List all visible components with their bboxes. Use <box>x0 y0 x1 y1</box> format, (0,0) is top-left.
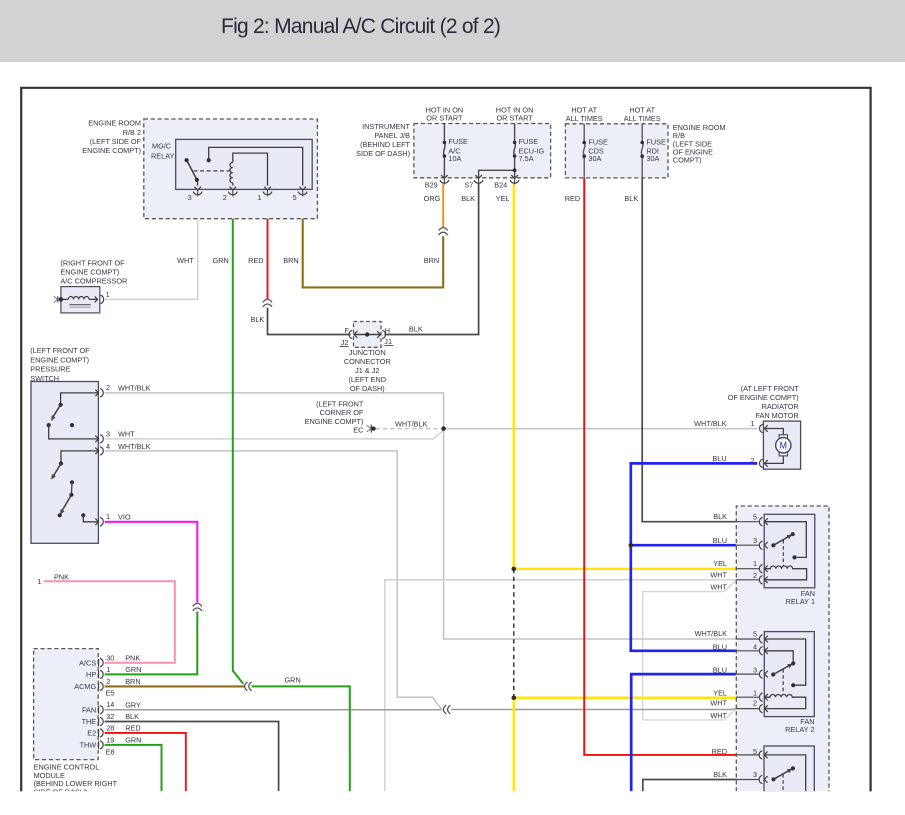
relay MG/C internal coil rail pin1 <box>233 153 268 186</box>
svg-text:B29: B29 <box>425 180 438 189</box>
svg-text:GRN: GRN <box>125 736 141 745</box>
svg-text:RED: RED <box>565 194 580 203</box>
motor pin connectors 1 2 <box>764 425 767 432</box>
svg-text:WHT/BLK: WHT/BLK <box>118 383 151 392</box>
svg-text:FUSE: FUSE <box>448 137 468 146</box>
svg-text:PNK: PNK <box>54 572 69 581</box>
svg-text:1: 1 <box>106 512 110 521</box>
wire BLK fan relay 3 pin3 drop <box>643 780 736 792</box>
fuse ECU-IG 7.5A <box>514 124 516 178</box>
relay MG/C inner box <box>176 139 313 189</box>
junction connector J1 J2 dashed box <box>354 322 382 348</box>
svg-text:BLK: BLK <box>713 512 727 521</box>
connector break GRN-BRN <box>245 682 248 691</box>
wire BLK splice to junction connector J2 <box>268 308 351 335</box>
relay 1 internal contact rail <box>764 522 806 558</box>
svg-text:PRESSURE: PRESSURE <box>30 365 70 374</box>
svg-text:1: 1 <box>106 665 110 674</box>
compressor coil and core <box>61 298 68 300</box>
svg-text:WHT: WHT <box>177 256 194 265</box>
wire GRY connector break to fan relay 2 pin2 <box>451 708 736 711</box>
svg-text:30A: 30A <box>646 154 659 163</box>
svg-text:HP: HP <box>86 670 96 679</box>
svg-text:BLK: BLK <box>125 712 139 721</box>
svg-text:30: 30 <box>106 653 114 662</box>
svg-text:2: 2 <box>223 193 227 202</box>
svg-text:OF DASH): OF DASH) <box>350 384 385 393</box>
svg-text:RED: RED <box>248 256 263 265</box>
wire YEL to fan relay 1 pin1 <box>514 568 736 571</box>
fuse CDS 30A <box>583 124 585 178</box>
svg-text:10A: 10A <box>448 154 461 163</box>
svg-text:RELAY 1: RELAY 1 <box>786 597 815 606</box>
svg-text:J1 & J2: J1 & J2 <box>355 366 379 375</box>
pressure switch pin arrows and connectors 2 3 4 1 <box>95 390 98 397</box>
splice ORG to BRN <box>439 228 448 231</box>
svg-text:BRN: BRN <box>424 256 439 265</box>
svg-text:PNK: PNK <box>125 653 140 662</box>
wire WHT/BLK EC node to radiator fan motor pin1 <box>444 428 758 430</box>
svg-text:WHT: WHT <box>710 583 727 592</box>
svg-text:BLK: BLK <box>624 194 638 203</box>
relay 2 internal contact rail pin5 <box>764 639 805 685</box>
fuse A/C 10A <box>444 124 446 178</box>
svg-text:GRY: GRY <box>125 700 141 709</box>
wire BLK fuse RDI to fan relay 1 pin5 <box>642 178 736 522</box>
svg-text:(BEHIND LEFT: (BEHIND LEFT <box>360 140 410 149</box>
svg-text:GRN: GRN <box>125 665 141 674</box>
header bar <box>0 0 905 62</box>
motor brushes <box>779 435 787 438</box>
svg-text:2: 2 <box>106 383 110 392</box>
svg-text:5: 5 <box>753 747 757 756</box>
svg-text:RELAY: RELAY <box>151 152 175 161</box>
relay FAN RELAY 1 inner box <box>764 514 815 588</box>
svg-text:4: 4 <box>106 442 110 451</box>
relay 2 coil <box>764 695 805 709</box>
fuse box ENGINE ROOM R/B dashed box <box>565 124 668 178</box>
wire BLK junction connector J1 to fuse S7 <box>384 183 478 334</box>
relay 3 pin stubs and connectors 5 3 <box>736 754 760 756</box>
wire YEL fuse B24 down with dashed section and drop <box>513 184 516 569</box>
wire BLU fan relay 2 pin3 drop <box>631 674 736 791</box>
svg-text:RED: RED <box>125 724 140 733</box>
ECM dashed box ENGINE CONTROL MODULE <box>34 649 99 760</box>
svg-text:INSTRUMENT: INSTRUMENT <box>362 122 410 131</box>
svg-text:FUSE: FUSE <box>588 138 608 147</box>
EC body ground symbol <box>370 425 372 433</box>
svg-text:THW: THW <box>80 741 97 750</box>
pressure switch internal switch 3 <box>70 480 74 484</box>
pressure switch internal switch 2 <box>61 451 98 464</box>
svg-text:OF ENGINE COMPT): OF ENGINE COMPT) <box>728 393 799 402</box>
relay 3 internal rail <box>764 755 806 791</box>
svg-text:(AT LEFT FRONT: (AT LEFT FRONT <box>741 384 800 393</box>
compressor ground-side symbol <box>57 296 59 302</box>
wire GRY ECM FAN to connector break <box>105 709 442 711</box>
svg-text:BLK: BLK <box>713 770 727 779</box>
svg-text:EC: EC <box>353 426 363 435</box>
svg-text:GRN: GRN <box>213 256 229 265</box>
wire RED fuse CDS to fan relay 3 pin5 <box>584 178 736 755</box>
svg-text:S7: S7 <box>464 180 473 189</box>
svg-text:YEL: YEL <box>713 688 727 697</box>
fuse box pin arrows and connectors B29 S7 B24 <box>443 178 445 185</box>
svg-text:H: H <box>385 326 390 335</box>
node YEL junction dots <box>512 567 517 572</box>
svg-text:COMPT): COMPT) <box>673 156 702 165</box>
svg-text:BRN: BRN <box>283 256 298 265</box>
svg-text:CORNER OF: CORNER OF <box>320 408 364 417</box>
svg-text:OR START: OR START <box>496 114 533 123</box>
svg-text:J2: J2 <box>341 338 349 347</box>
svg-text:ACMG: ACMG <box>74 682 96 691</box>
svg-text:BLU: BLU <box>713 536 727 545</box>
svg-text:ENGINE COMPT): ENGINE COMPT) <box>60 268 119 277</box>
wire WHT/BLK pressure switch pin2 to EC node <box>105 393 444 426</box>
svg-text:FAN MOTOR: FAN MOTOR <box>755 411 798 420</box>
splice RED to BLK <box>263 299 272 302</box>
svg-text:VIO: VIO <box>118 512 131 521</box>
svg-text:SIDE OF DASH): SIDE OF DASH) <box>356 149 410 158</box>
svg-text:SIDE OF DASH): SIDE OF DASH) <box>34 788 88 797</box>
svg-text:WHT/BLK: WHT/BLK <box>118 442 151 451</box>
junction connector internal wire and node <box>354 334 382 336</box>
wire BRN ECM ACMG to break <box>105 685 244 687</box>
svg-text:28: 28 <box>106 723 114 732</box>
relay 2 pin4 rail to NO contact <box>764 651 793 661</box>
svg-text:4: 4 <box>753 643 757 652</box>
svg-text:1: 1 <box>753 689 757 698</box>
radiator fan motor box <box>763 421 800 469</box>
svg-text:BLK: BLK <box>461 194 475 203</box>
svg-text:1: 1 <box>750 419 754 428</box>
relay MG/C dashed actuation link <box>194 170 230 172</box>
svg-text:WHT: WHT <box>710 711 727 720</box>
wire RED MG/C relay pin1 to splice <box>267 196 269 299</box>
wire WHT pressure switch pin3 to EC node <box>105 430 444 439</box>
relay 1 coil <box>764 566 806 580</box>
svg-text:2: 2 <box>753 571 757 580</box>
compressor pin1 connector <box>101 295 104 303</box>
motor M circle <box>776 438 791 453</box>
node EC dot <box>371 426 375 430</box>
wire GRN MG/C relay pin2 to break to ECM area drop <box>233 197 243 684</box>
svg-text:RADIATOR: RADIATOR <box>762 402 799 411</box>
svg-text:BLU: BLU <box>712 454 726 463</box>
svg-text:1: 1 <box>257 193 261 202</box>
svg-text:BLU: BLU <box>713 642 727 651</box>
svg-text:E8: E8 <box>106 748 115 757</box>
node WHT/BLK junction dot <box>441 426 446 431</box>
svg-text:1: 1 <box>106 290 110 299</box>
svg-text:THE: THE <box>82 717 97 726</box>
svg-text:WHT: WHT <box>710 699 727 708</box>
svg-text:R/B 2: R/B 2 <box>123 128 141 137</box>
svg-text:3: 3 <box>188 193 192 202</box>
wire WHT MG/C relay pin3 to A/C compressor <box>105 196 198 299</box>
wire BLK ECM THE drop <box>105 722 279 792</box>
svg-text:E2: E2 <box>87 729 96 738</box>
svg-text:(LEFT SIDE OF: (LEFT SIDE OF <box>90 137 142 146</box>
relay 1 switch lever <box>771 543 775 547</box>
svg-text:19: 19 <box>106 735 114 744</box>
wire WHT fan relay 1 pin2 horizontal and drop <box>385 580 736 792</box>
wire WHT/BLK EC dashed segment <box>376 428 441 430</box>
svg-text:(RIGHT FRONT OF: (RIGHT FRONT OF <box>60 259 125 268</box>
svg-text:BLK: BLK <box>251 315 265 324</box>
svg-text:A/CS: A/CS <box>79 658 96 667</box>
svg-text:(LEFT END: (LEFT END <box>349 375 387 384</box>
svg-text:2: 2 <box>106 677 110 686</box>
fan relays dashed box <box>736 506 829 791</box>
relay 2 switch lever <box>771 672 775 676</box>
svg-text:3: 3 <box>106 429 110 438</box>
relay 2 dashed actuation <box>782 669 784 694</box>
wire BLU branch to fan relay 1 pin3 <box>631 544 736 547</box>
ECM pin connectors <box>98 659 100 667</box>
relay 1 pin stubs and connectors 5 3 1 2 <box>736 521 760 523</box>
wire BRN MG/C relay pin5 to splice under ORG <box>303 196 444 287</box>
svg-text:FAN: FAN <box>82 706 96 715</box>
connector break GRY <box>443 705 446 714</box>
svg-text:(LEFT FRONT OF: (LEFT FRONT OF <box>30 346 90 355</box>
svg-text:1: 1 <box>37 577 41 586</box>
svg-text:3: 3 <box>753 666 757 675</box>
svg-text:5: 5 <box>753 512 757 521</box>
pressure switch internal switch 1 <box>61 393 99 405</box>
svg-text:FUSE: FUSE <box>519 137 539 146</box>
relay 3 switch lever <box>771 777 775 781</box>
relay FAN RELAY 3 inner box partial <box>764 746 814 792</box>
svg-text:BLU: BLU <box>713 665 727 674</box>
svg-text:JUNCTION: JUNCTION <box>349 348 386 357</box>
svg-text:30A: 30A <box>588 154 601 163</box>
wire WHT/BLK EC node down to fan relay 2 pin5 <box>444 429 736 639</box>
relay FAN RELAY 2 inner box <box>764 632 814 717</box>
svg-text:Fig 2: Manual A/C Circuit (2 o: Fig 2: Manual A/C Circuit (2 of 2) <box>221 15 500 38</box>
svg-text:BRN: BRN <box>125 677 140 686</box>
svg-text:ENGINE ROOM: ENGINE ROOM <box>88 119 141 128</box>
wire YEL to fan relay 2 pin1 <box>514 696 736 699</box>
pressure switch box <box>31 382 98 544</box>
fuse box INSTRUMENT PANEL J/B dashed box <box>414 124 551 178</box>
wire PNK stub to ECM A/CS <box>44 581 175 663</box>
svg-text:GRN: GRN <box>285 676 301 685</box>
svg-text:7.5A: 7.5A <box>519 154 534 163</box>
splice VIO to GRN <box>193 603 202 606</box>
svg-text:F: F <box>345 326 350 335</box>
relay MG/C pin arrows and connectors <box>197 189 199 196</box>
fuse RDI 30A <box>641 124 643 178</box>
wire WHT angled link relay1 pin2 to relay2 pin2 <box>643 580 736 720</box>
svg-text:ENGINE COMPT): ENGINE COMPT) <box>305 417 364 426</box>
svg-text:ORG: ORG <box>424 194 441 203</box>
svg-text:CONNECTOR: CONNECTOR <box>344 357 391 366</box>
svg-text:5: 5 <box>753 630 757 639</box>
svg-text:A/C COMPRESSOR: A/C COMPRESSOR <box>60 276 127 285</box>
svg-text:WHT/BLK: WHT/BLK <box>695 629 728 638</box>
svg-text:WHT/BLK: WHT/BLK <box>694 419 727 428</box>
svg-text:14: 14 <box>106 700 114 709</box>
wire VIO pressure switch pin1 to splice <box>105 522 198 603</box>
node BLU junction dot <box>629 543 634 548</box>
svg-text:ENGINE COMPT): ENGINE COMPT) <box>82 146 141 155</box>
svg-text:YEL: YEL <box>713 559 727 568</box>
svg-text:32: 32 <box>106 712 114 721</box>
svg-text:BLK: BLK <box>409 325 423 334</box>
svg-text:5: 5 <box>293 193 297 202</box>
svg-text:3: 3 <box>753 770 757 779</box>
wire GRN splice to ECM HP <box>105 612 198 675</box>
svg-text:WHT: WHT <box>118 430 135 439</box>
motor internal wiring <box>764 429 783 435</box>
fuse box branch wire to S7 <box>479 170 515 177</box>
svg-text:M: M <box>780 441 787 451</box>
svg-text:YEL: YEL <box>496 194 510 203</box>
svg-text:E5: E5 <box>106 689 115 698</box>
svg-text:2: 2 <box>753 699 757 708</box>
svg-text:2: 2 <box>750 456 754 465</box>
svg-text:ALL TIMES: ALL TIMES <box>624 114 661 123</box>
junction connector arcs F and H <box>349 330 352 338</box>
svg-text:RELAY 2: RELAY 2 <box>785 725 814 734</box>
svg-text:B24: B24 <box>494 180 507 189</box>
relay 1 dashed actuation <box>782 540 784 566</box>
relay MG/C coil <box>230 162 233 182</box>
svg-text:MG/C: MG/C <box>152 142 171 151</box>
wire RED ECM E2 drop <box>105 733 186 791</box>
relay MG/C switch lever <box>187 160 197 180</box>
relay MG/C dashed box (ENGINE ROOM R/B 2) <box>144 119 318 219</box>
svg-text:FUSE: FUSE <box>646 138 666 147</box>
svg-text:J1: J1 <box>384 337 392 346</box>
wire WHT/BLK pressure switch pin4 to connector break <box>105 451 442 710</box>
svg-text:ENGINE COMPT): ENGINE COMPT) <box>30 355 89 364</box>
relay 3 dashed actuation <box>782 774 784 791</box>
wire BLU radiator fan motor pin2 trunk to relays <box>631 463 757 650</box>
svg-text:3: 3 <box>753 536 757 545</box>
relay MG/C internal top rail pin5 <box>209 147 303 185</box>
compressor clutch coil box <box>61 287 100 313</box>
svg-text:OR START: OR START <box>426 114 463 123</box>
svg-text:RED: RED <box>712 747 727 756</box>
svg-text:WHT/BLK: WHT/BLK <box>395 419 428 428</box>
svg-text:ALL TIMES: ALL TIMES <box>566 114 603 123</box>
svg-text:(LEFT FRONT: (LEFT FRONT <box>316 399 364 408</box>
wire GRN ECM THW drop <box>105 745 162 791</box>
wire ORG fuse B29 down to splice <box>442 184 444 227</box>
svg-text:PANEL J/B: PANEL J/B <box>374 131 410 140</box>
relay 2 pin stubs and connectors 5 4 3 1 2 <box>736 638 760 640</box>
svg-text:1: 1 <box>753 559 757 568</box>
svg-text:WHT: WHT <box>710 571 727 580</box>
